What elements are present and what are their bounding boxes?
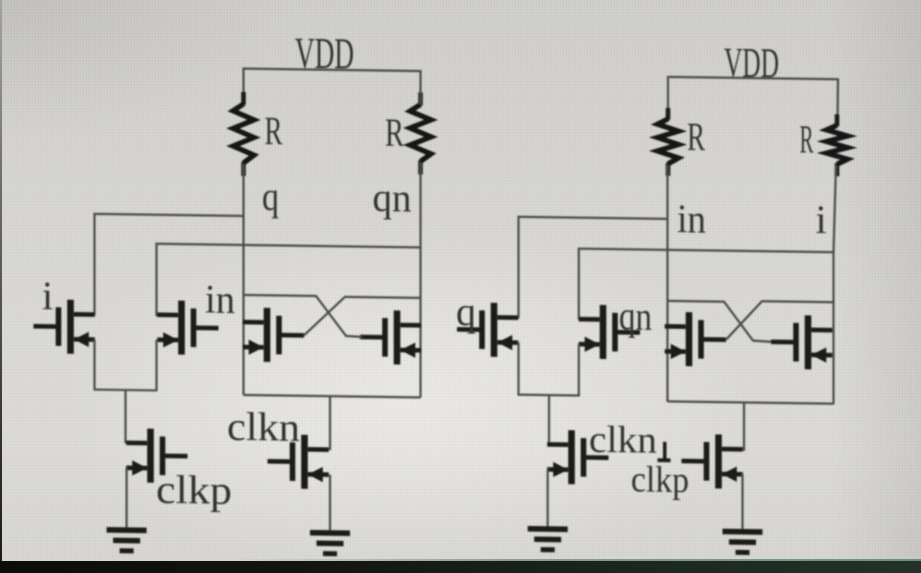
wire in column main segment — [666, 165, 668, 402]
transistor M5 clkp (left latch) — [126, 428, 187, 483]
wire M8 drain to i node — [579, 249, 834, 324]
svg-text:clkn: clkn — [227, 404, 300, 450]
wire M2 source down — [155, 340, 157, 391]
wire i column upper segment — [836, 78, 839, 125]
resistor R (right latch, in side) — [658, 108, 679, 176]
ground (right latch, clkp) — [723, 529, 763, 556]
transistor M12 clkp (right latch) — [682, 434, 743, 489]
svg-text:i: i — [42, 273, 53, 318]
wire source bus (left input pair) — [94, 388, 158, 391]
transistor M11 clkn (right latch) — [547, 430, 608, 485]
wire M1 source down — [93, 339, 95, 390]
svg-text:q: q — [262, 174, 279, 219]
stray tick mark after clkn — [663, 442, 667, 462]
wire tail to M5 — [124, 390, 126, 443]
svg-text:R: R — [265, 108, 283, 153]
svg-text:i: i — [816, 197, 827, 242]
transistor M9 cross-coupled left (right latch) — [665, 312, 726, 367]
wire cross-coupling q to M4 gate — [244, 295, 363, 337]
wire cross-coupling qn to M3 gate — [304, 296, 421, 337]
wire cross-pair source bus (left latch) — [244, 395, 421, 397]
ground (right latch, clkn) — [528, 526, 568, 553]
wire M2 drain to qn node — [157, 244, 421, 320]
wire source bus (right input pair) — [518, 394, 580, 397]
wire M7 drain to in node — [519, 217, 669, 321]
svg-text:qn: qn — [619, 293, 652, 338]
wire cross-coupling i to M9 gate — [726, 301, 834, 342]
transistor M2 input in — [157, 300, 218, 355]
transistor M3 cross-coupled left — [243, 308, 304, 363]
svg-text:qn: qn — [373, 175, 412, 221]
wire M7 source down — [517, 342, 519, 395]
svg-text:VDD: VDD — [724, 41, 779, 88]
wire VDD rail (right latch) — [669, 77, 838, 79]
svg-text:R: R — [800, 117, 814, 162]
wire M6 source to ground — [329, 475, 331, 532]
wire M12 source to ground — [741, 474, 743, 530]
transistor M1 input i — [34, 299, 95, 354]
transistor M4 cross-coupled right — [360, 310, 421, 365]
svg-text:in: in — [677, 196, 706, 241]
ground (left latch, clkn) — [310, 530, 350, 557]
wire i column main segment — [834, 165, 837, 404]
wire qn column main segment — [419, 162, 421, 397]
svg-text:R: R — [687, 114, 705, 159]
wire qn column upper segment — [419, 70, 421, 105]
wire cross-coupling in to M10 gate — [668, 301, 772, 342]
wire M8 source down — [578, 344, 580, 397]
transistor M10 cross-coupled right (right latch) — [771, 315, 832, 370]
transistor M7 input q — [457, 302, 518, 357]
svg-text:in: in — [205, 276, 235, 321]
resistor R (left latch, q side) — [233, 92, 254, 176]
wire in column upper segment — [667, 76, 669, 120]
svg-text:clkp: clkp — [156, 467, 232, 513]
wire q column main segment — [242, 164, 244, 395]
svg-text:q: q — [456, 289, 476, 334]
svg-text:R: R — [385, 110, 404, 155]
wire M1 drain to q node — [95, 214, 244, 317]
ground (left latch, clkp) — [107, 527, 147, 554]
svg-text:clkp: clkp — [631, 459, 689, 501]
wire tail to M6 — [329, 396, 331, 450]
wire M5 source to ground — [125, 467, 127, 528]
transistor M8 input qn — [579, 305, 640, 360]
wire q column upper segment — [242, 67, 244, 105]
wire tail to M12 — [743, 402, 745, 451]
wire M11 source to ground — [547, 469, 549, 527]
resistor R (left latch, qn side) — [410, 92, 431, 174]
resistor R (right latch, i side) — [827, 114, 848, 176]
wire cross-pair source bus (right latch) — [668, 401, 834, 403]
wire VDD rail (left latch) — [243, 69, 422, 71]
wire tail to M11 — [548, 395, 550, 445]
transistor M6 clkn (left latch) — [268, 434, 329, 489]
svg-text:clkn: clkn — [589, 419, 657, 462]
